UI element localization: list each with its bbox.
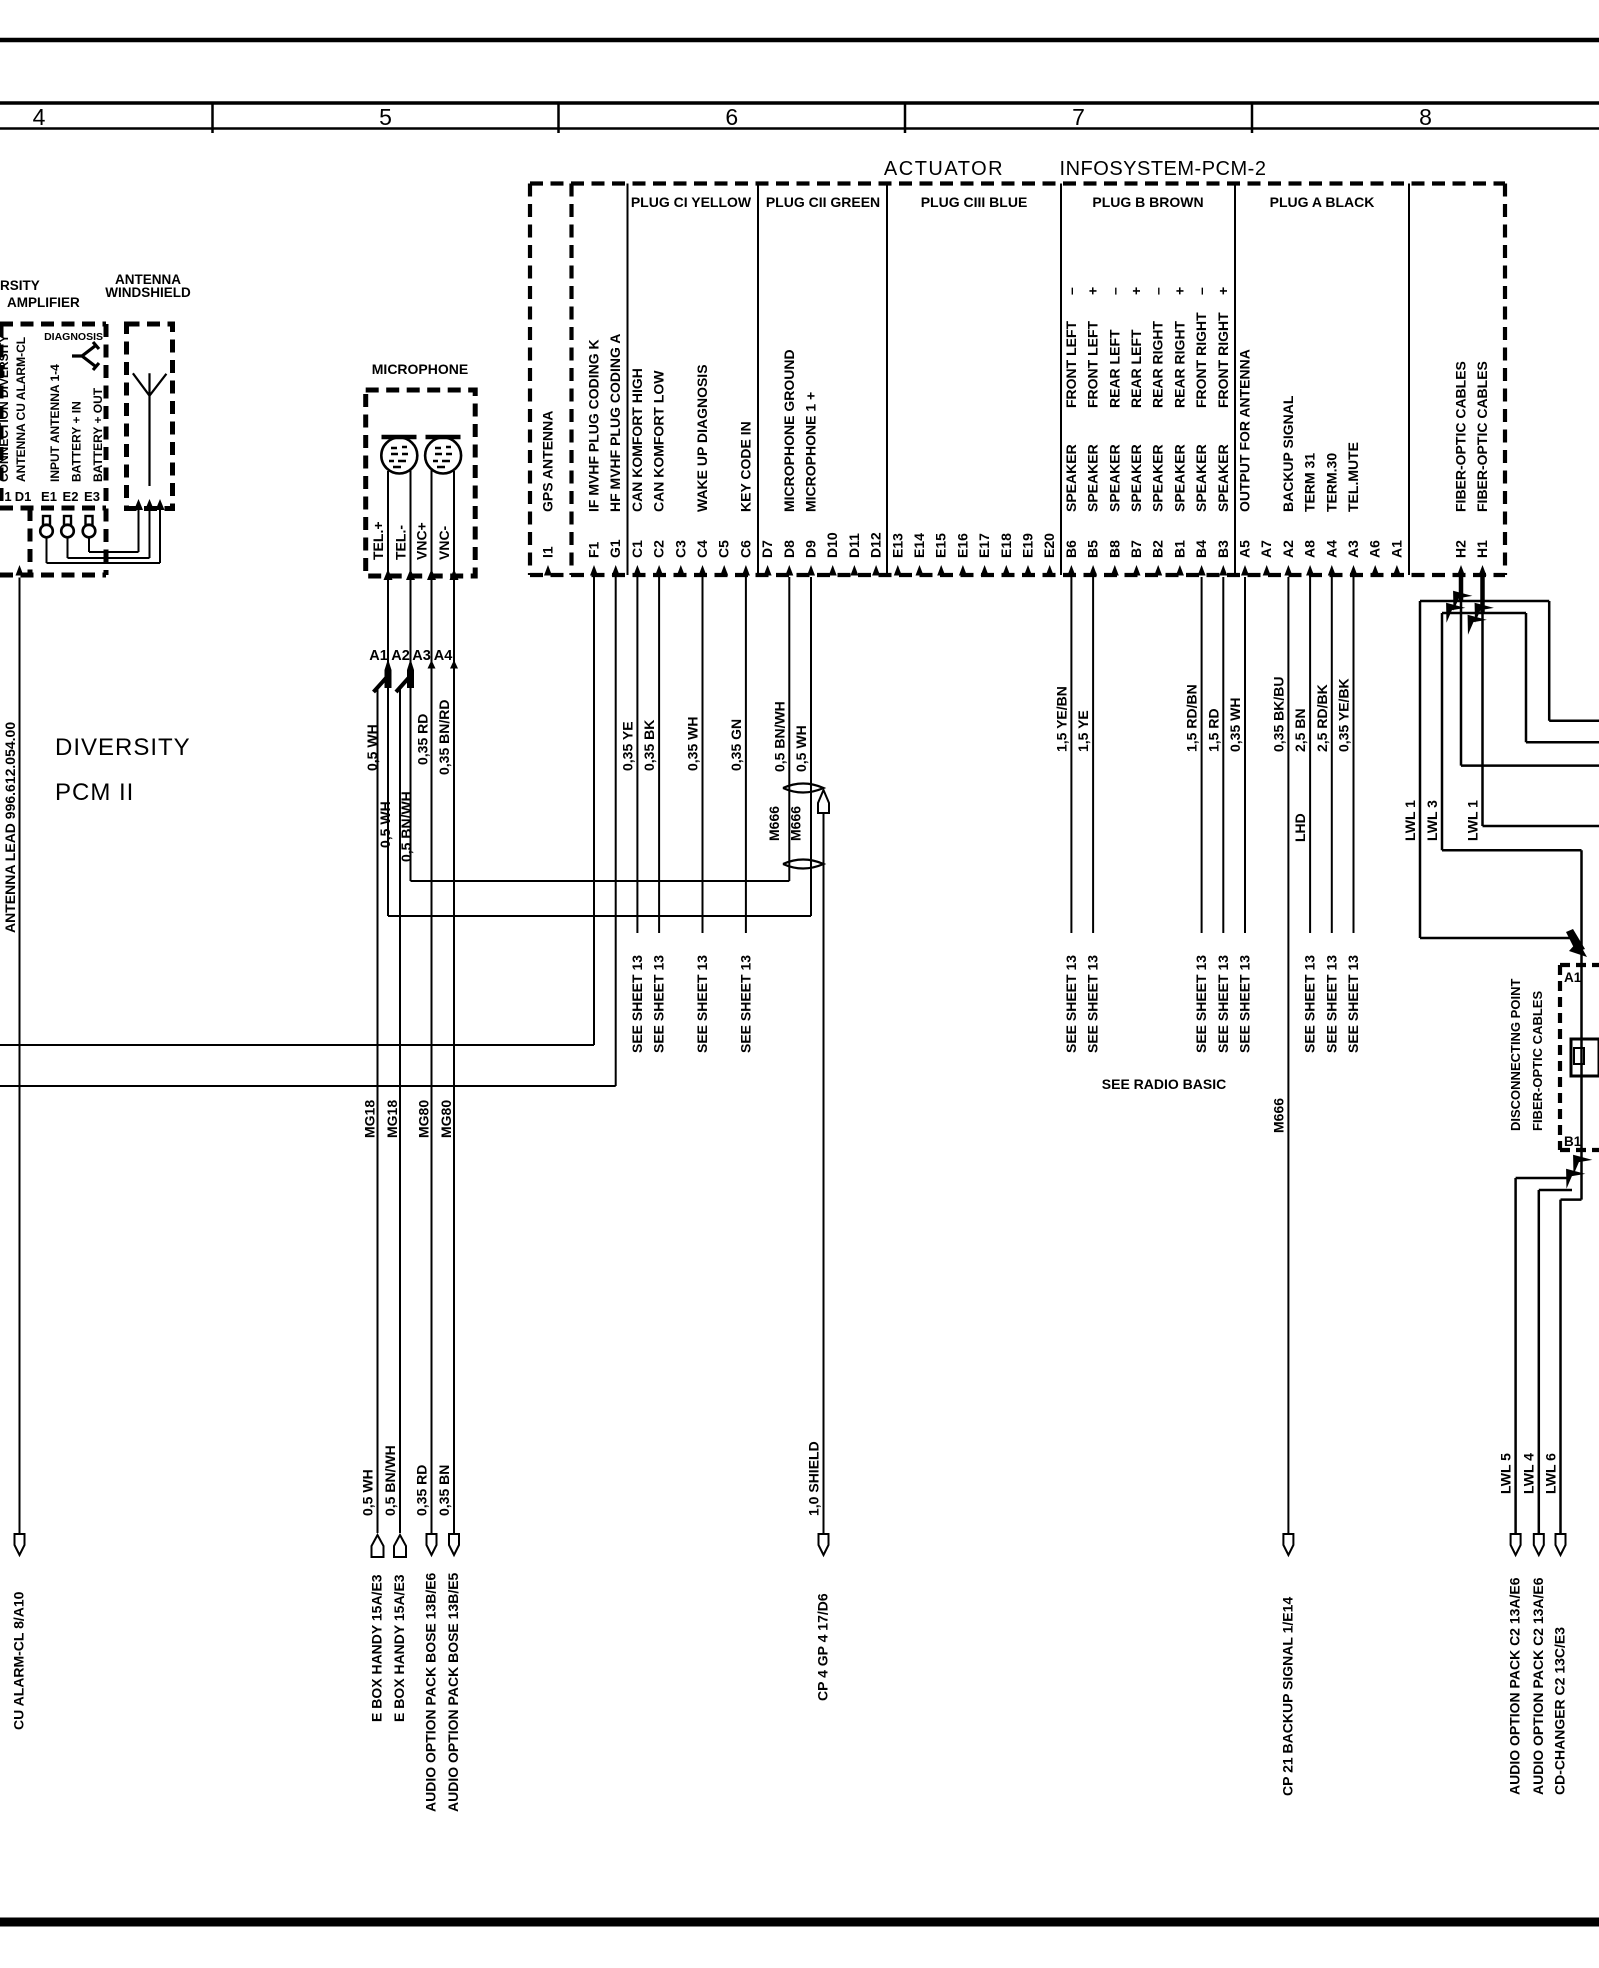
pin A7 <box>1263 565 1271 576</box>
svg-text:1,5 YE/BN: 1,5 YE/BN <box>1053 686 1069 752</box>
wire A2 backup signal <box>1287 577 1289 1533</box>
wire C4 <box>702 577 704 933</box>
svg-text:1,5 YE: 1,5 YE <box>1075 710 1091 752</box>
fiber chevrons H1 <box>1465 595 1494 622</box>
fiber LWL 6 <box>1561 1198 1582 1201</box>
section divider A <box>1234 184 1236 576</box>
svg-text:AUDIO OPTION PACK C2 13A/E6: AUDIO OPTION PACK C2 13A/E6 <box>1530 1577 1546 1795</box>
shield lens M666 lower <box>783 860 824 869</box>
svg-text:2,5 RD/BK: 2,5 RD/BK <box>1314 684 1330 752</box>
svg-text:G1: G1 <box>607 539 623 558</box>
svg-text:0,5 WH: 0,5 WH <box>360 1469 376 1516</box>
svg-text:C1: C1 <box>629 540 645 558</box>
wire B6 <box>1070 577 1072 933</box>
svg-text:ANTENNA LEAD 996.612.054.00: ANTENNA LEAD 996.612.054.00 <box>2 722 18 933</box>
svg-text:0,5 BN/WH: 0,5 BN/WH <box>771 701 787 772</box>
svg-text:CAN KOMFORT LOW: CAN KOMFORT LOW <box>651 370 667 512</box>
pin B2 <box>1154 565 1162 576</box>
wire D8 microphone ground <box>788 577 790 881</box>
svg-text:C2: C2 <box>651 540 667 558</box>
svg-text:AMPLIFIER: AMPLIFIER <box>7 295 80 310</box>
connector E2 <box>64 516 71 525</box>
svg-text:GPS ANTENNA: GPS ANTENNA <box>540 411 556 512</box>
svg-text:LWL 6: LWL 6 <box>1543 1453 1559 1494</box>
svg-text:SEE SHEET 13: SEE SHEET 13 <box>1323 955 1339 1053</box>
ruler bar <box>0 101 1599 105</box>
svg-text:D1: D1 <box>15 489 32 504</box>
wire B4 <box>1201 577 1203 933</box>
svg-text:1,5 RD: 1,5 RD <box>1205 708 1221 752</box>
svg-text:+: + <box>1128 287 1144 295</box>
wire TEL.- <box>410 470 412 881</box>
svg-text:PLUG CIII BLUE: PLUG CIII BLUE <box>921 194 1028 210</box>
actuator box outline <box>530 181 1505 185</box>
pin A2 <box>1284 565 1292 576</box>
svg-text:REAR RIGHT: REAR RIGHT <box>1171 320 1187 408</box>
fiber LWL 1 left <box>1420 600 1461 603</box>
section divider E <box>886 184 888 576</box>
svg-text:E18: E18 <box>998 533 1014 558</box>
svg-text:SEE SHEET 13: SEE SHEET 13 <box>1063 955 1079 1053</box>
microphone box bottom pin arrows <box>384 569 393 580</box>
pin E17 <box>981 565 989 576</box>
wire F1 coding <box>593 577 595 1045</box>
svg-text:CONNECTION DIVERSITY: CONNECTION DIVERSITY <box>0 335 11 482</box>
svg-text:ANTENNA CU ALARM-CL: ANTENNA CU ALARM-CL <box>14 337 28 482</box>
pin F1 <box>590 565 598 576</box>
svg-text:E3: E3 <box>84 489 100 504</box>
svg-text:+: + <box>1171 287 1187 295</box>
svg-text:A3: A3 <box>1345 540 1361 558</box>
svg-text:LWL 4: LWL 4 <box>1521 1453 1537 1494</box>
svg-text:LWL 1: LWL 1 <box>1402 800 1418 841</box>
pin B1 <box>1176 565 1184 576</box>
svg-text:FRONT RIGHT: FRONT RIGHT <box>1193 312 1209 408</box>
antenna symbol <box>133 373 167 486</box>
svg-text:BATTERY + OUT: BATTERY + OUT <box>91 387 105 482</box>
svg-text:A5: A5 <box>1237 540 1253 558</box>
wire C6 <box>745 577 747 933</box>
svg-text:MICROPHONE GROUND: MICROPHONE GROUND <box>781 349 797 512</box>
svg-text:BACKUP SIGNAL: BACKUP SIGNAL <box>1280 395 1296 512</box>
svg-text:0,35 GN: 0,35 GN <box>728 719 744 771</box>
svg-text:M666: M666 <box>788 806 804 841</box>
pin D9 <box>807 565 815 576</box>
pin D12 <box>872 565 880 576</box>
pin B8 <box>1111 565 1119 576</box>
arrow LWL 6 <box>1556 1534 1566 1555</box>
svg-text:PLUG CI YELLOW: PLUG CI YELLOW <box>631 194 752 210</box>
fiber wire H2 down <box>1460 600 1463 766</box>
pin B5 <box>1089 565 1097 576</box>
pin C6 <box>742 565 750 576</box>
fiber chevrons H2 <box>1444 583 1473 610</box>
svg-text:WAKE UP DIAGNOSIS: WAKE UP DIAGNOSIS <box>694 364 710 512</box>
svg-text:E2: E2 <box>63 489 79 504</box>
antenna windshield box <box>127 324 173 509</box>
svg-text:FRONT LEFT: FRONT LEFT <box>1063 320 1079 408</box>
fiber wire H1 down <box>1481 612 1484 826</box>
pin B3 <box>1219 565 1227 576</box>
svg-text:0,5 WH: 0,5 WH <box>377 801 393 848</box>
svg-text:E13: E13 <box>889 533 905 558</box>
wire D9 microphone 1+ <box>810 577 812 916</box>
svg-text:CU ALARM-CL 8/A10: CU ALARM-CL 8/A10 <box>11 1591 27 1730</box>
pin E16 <box>959 565 967 576</box>
svg-text:AUDIO OPTION PACK BOSE 13B/E: AUDIO OPTION PACK BOSE 13B/E5 <box>445 1572 461 1812</box>
pin E20 <box>1046 565 1054 576</box>
svg-text:MICROPHONE 1 +: MICROPHONE 1 + <box>803 392 819 512</box>
connector arrow A1 <box>385 659 392 688</box>
svg-text:SPEAKER: SPEAKER <box>1085 444 1101 512</box>
svg-text:HF MVHF PLUG CODING A: HF MVHF PLUG CODING A <box>607 334 623 512</box>
svg-text:0,35 RD: 0,35 RD <box>415 714 431 765</box>
svg-text:INPUT ANTENNA 1-4: INPUT ANTENNA 1-4 <box>48 364 62 482</box>
pin A5 <box>1241 565 1249 576</box>
svg-text:LWL 1: LWL 1 <box>1465 800 1481 841</box>
pin H2 <box>1457 565 1465 576</box>
svg-text:–: – <box>1193 287 1209 295</box>
wire CU ALARM-CL <box>16 565 24 576</box>
svg-text:1,5 RD/BN: 1,5 RD/BN <box>1184 684 1200 752</box>
svg-text:FIBER-OPTIC CABLES: FIBER-OPTIC CABLES <box>1474 361 1490 512</box>
svg-text:B1: B1 <box>1564 1134 1582 1149</box>
section divider H <box>1408 184 1410 576</box>
svg-text:A2: A2 <box>391 648 410 664</box>
svg-text:A1: A1 <box>1388 540 1404 558</box>
svg-text:0,5 WH: 0,5 WH <box>364 724 380 771</box>
svg-text:0,35 YE/BK: 0,35 YE/BK <box>1336 678 1352 752</box>
svg-text:M666: M666 <box>766 806 782 841</box>
connector CU-ALARM amplifier box <box>0 322 106 327</box>
svg-text:FIBER-OPTIC CABLES: FIBER-OPTIC CABLES <box>1453 361 1469 512</box>
pin A1 <box>1393 565 1401 576</box>
svg-text:LWL 5: LWL 5 <box>1498 1453 1514 1494</box>
wire E BOX HANDY 2 <box>399 689 401 1533</box>
svg-text:VNC-: VNC- <box>436 525 452 560</box>
svg-text:FRONT RIGHT: FRONT RIGHT <box>1215 312 1231 408</box>
svg-text:B1: B1 <box>1171 540 1187 558</box>
fiber LWL 3 <box>1442 612 1483 615</box>
fiber chevrons B1 <box>1564 1147 1593 1174</box>
pin D11 <box>850 565 858 576</box>
svg-text:B2: B2 <box>1150 540 1166 558</box>
svg-text:ACTUATOR: ACTUATOR <box>884 158 1004 180</box>
svg-text:PCM II: PCM II <box>55 779 134 806</box>
svg-text:0,5 BN/WH: 0,5 BN/WH <box>382 1445 398 1516</box>
wire B5 <box>1092 577 1094 933</box>
svg-text:LHD: LHD <box>1292 813 1308 842</box>
svg-text:SEE SHEET 13: SEE SHEET 13 <box>1215 955 1231 1053</box>
svg-text:A8: A8 <box>1302 540 1318 558</box>
svg-text:KEY CODE IN: KEY CODE IN <box>737 421 753 512</box>
svg-text:5: 5 <box>379 104 392 130</box>
svg-text:RSITY: RSITY <box>0 278 40 293</box>
disconnect coupler box <box>1571 1039 1599 1076</box>
svg-text:0,35 YE: 0,35 YE <box>619 721 635 771</box>
connector arrow A2 <box>407 659 414 688</box>
pin E18 <box>1002 565 1010 576</box>
svg-text:B3: B3 <box>1215 540 1231 558</box>
shield drain arrow <box>818 790 829 813</box>
pin D7 <box>764 565 772 576</box>
svg-text:8: 8 <box>1419 104 1432 130</box>
svg-text:MICROPHONE: MICROPHONE <box>372 361 468 377</box>
svg-text:7: 7 <box>1072 104 1085 130</box>
svg-text:SPEAKER: SPEAKER <box>1215 444 1231 512</box>
arrow E BOX HANDY 2 <box>394 1535 406 1557</box>
svg-text:BATTERY + IN: BATTERY + IN <box>70 401 84 482</box>
svg-text:CP 4 GP 4 17/D6: CP 4 GP 4 17/D6 <box>815 1593 831 1701</box>
fiber trunk to disconnecting point <box>1580 850 1583 1199</box>
svg-text:A4: A4 <box>434 648 453 664</box>
svg-text:C5: C5 <box>716 540 732 558</box>
svg-text:0,35 BN: 0,35 BN <box>436 1465 452 1516</box>
pin E15 <box>937 565 945 576</box>
wire A5 <box>1244 577 1246 933</box>
microphone capsule 2 <box>426 435 461 440</box>
svg-text:E20: E20 <box>1041 533 1057 558</box>
svg-text:C3: C3 <box>672 540 688 558</box>
fiber branch right upper <box>1461 600 1549 603</box>
svg-text:SPEAKER: SPEAKER <box>1193 444 1209 512</box>
svg-text:SPEAKER: SPEAKER <box>1063 444 1079 512</box>
svg-text:E16: E16 <box>954 533 970 558</box>
arrow shield CP4 <box>819 1534 829 1555</box>
top border line <box>0 38 1599 43</box>
svg-text:1,0 SHIELD: 1,0 SHIELD <box>806 1441 822 1516</box>
svg-text:+: + <box>1085 287 1101 295</box>
svg-text:SPEAKER: SPEAKER <box>1171 444 1187 512</box>
svg-text:SPEAKER: SPEAKER <box>1106 444 1122 512</box>
svg-text:PLUG B BROWN: PLUG B BROWN <box>1092 194 1203 210</box>
svg-text:SEE SHEET 13: SEE SHEET 13 <box>1302 955 1318 1053</box>
arrow BOSE 2 <box>449 1534 459 1555</box>
svg-text:SEE SHEET 13: SEE SHEET 13 <box>1085 955 1101 1053</box>
svg-text:SEE SHEET 13: SEE SHEET 13 <box>1345 955 1361 1053</box>
pin D10 <box>829 565 837 576</box>
svg-text:CAN KOMFORT HIGH: CAN KOMFORT HIGH <box>629 368 645 512</box>
section divider B <box>1060 184 1062 576</box>
svg-text:F1: F1 <box>586 541 602 558</box>
svg-text:D9: D9 <box>803 540 819 558</box>
pin A3 <box>1350 565 1358 576</box>
svg-text:D11: D11 <box>846 533 862 558</box>
wire A3 <box>1353 577 1355 933</box>
svg-text:MG18: MG18 <box>362 1100 378 1138</box>
svg-text:SPEAKER: SPEAKER <box>1128 444 1144 512</box>
svg-text:SEE RADIO BASIC: SEE RADIO BASIC <box>1102 1076 1226 1092</box>
svg-text:–: – <box>1063 287 1079 295</box>
svg-text:B7: B7 <box>1128 540 1144 558</box>
svg-text:E14: E14 <box>911 533 927 558</box>
svg-text:2,5 BN: 2,5 BN <box>1292 708 1308 752</box>
svg-text:4: 4 <box>33 104 46 130</box>
wire C1 <box>636 577 638 933</box>
wire E BOX HANDY 1 <box>377 689 379 1533</box>
pin C3 <box>677 565 685 576</box>
svg-text:A4: A4 <box>1323 540 1339 558</box>
svg-text:A3: A3 <box>412 648 431 664</box>
connector E1 <box>43 516 50 525</box>
svg-text:H1: H1 <box>1474 540 1490 558</box>
pin B4 <box>1198 565 1206 576</box>
svg-text:SEE SHEET 13: SEE SHEET 13 <box>1193 955 1209 1053</box>
svg-text:INFOSYSTEM-PCM-2: INFOSYSTEM-PCM-2 <box>1060 158 1267 180</box>
pin C4 <box>699 565 707 576</box>
wire G1 coding <box>615 577 617 1086</box>
pin A6 <box>1371 565 1379 576</box>
svg-text:PLUG CII GREEN: PLUG CII GREEN <box>766 194 880 210</box>
svg-text:TERM 31: TERM 31 <box>1302 453 1318 512</box>
svg-text:C6: C6 <box>737 540 753 558</box>
svg-text:D10: D10 <box>824 532 840 558</box>
svg-text:DISCONNECTING POINT: DISCONNECTING POINT <box>1508 979 1523 1131</box>
svg-text:TEL.-: TEL.- <box>393 525 409 560</box>
fiber LWL 5 <box>1516 1177 1570 1180</box>
arrow BOSE 1 <box>427 1534 437 1555</box>
svg-text:0,35 RD: 0,35 RD <box>414 1465 430 1516</box>
antenna box pin stubs <box>134 499 143 510</box>
svg-text:–: – <box>1150 287 1166 295</box>
svg-text:A6: A6 <box>1367 540 1383 558</box>
svg-text:FIBER-OPTIC CABLES: FIBER-OPTIC CABLES <box>1530 991 1545 1131</box>
svg-text:H2: H2 <box>1453 540 1469 558</box>
svg-text:E BOX HANDY 15A/E3: E BOX HANDY 15A/E3 <box>391 1574 407 1722</box>
svg-text:E19: E19 <box>1020 533 1036 558</box>
svg-text:A1: A1 <box>369 648 388 664</box>
svg-text:DIVERSITY: DIVERSITY <box>55 734 191 761</box>
svg-text:M666: M666 <box>1270 1098 1286 1133</box>
arrow E BOX HANDY 1 <box>372 1535 384 1557</box>
fiber LWL 4 <box>1539 1189 1572 1192</box>
connector area dashed box <box>28 508 33 575</box>
pin A4 <box>1328 565 1336 576</box>
shield lens M666 upper <box>783 784 824 793</box>
pin E19 <box>1024 565 1032 576</box>
svg-text:D8: D8 <box>781 540 797 558</box>
pin C2 <box>655 565 663 576</box>
wire VNC- <box>453 471 455 1533</box>
svg-text:PLUG A BLACK: PLUG A BLACK <box>1270 194 1375 210</box>
microphone box <box>366 390 476 576</box>
svg-text:B5: B5 <box>1085 540 1101 558</box>
svg-text:6: 6 <box>725 104 738 130</box>
fiber branch right lower <box>1483 612 1527 615</box>
pin G1 <box>612 565 620 576</box>
svg-text:FRONT LEFT: FRONT LEFT <box>1085 320 1101 408</box>
fiber H1 stub <box>1480 577 1485 612</box>
wire B3 <box>1222 577 1224 933</box>
svg-text:D12: D12 <box>868 532 884 558</box>
svg-text:CD-CHANGER C2 13C/E3: CD-CHANGER C2 13C/E3 <box>1552 1627 1568 1795</box>
svg-text:MG80: MG80 <box>416 1100 432 1138</box>
arrow CP 21 <box>1283 1534 1293 1555</box>
svg-text:0,5 WH: 0,5 WH <box>793 725 809 772</box>
bottom border line <box>0 1918 1599 1927</box>
pin C5 <box>720 565 728 576</box>
svg-text:OUTPUT FOR ANTENNA: OUTPUT FOR ANTENNA <box>1237 349 1253 512</box>
svg-text:WINDSHIELD: WINDSHIELD <box>105 285 191 300</box>
svg-text:C4: C4 <box>694 540 710 558</box>
pin B6 <box>1067 565 1075 576</box>
pin E14 <box>916 565 924 576</box>
svg-text:TEL.+: TEL.+ <box>370 521 386 560</box>
arrow LWL 5 <box>1511 1534 1521 1555</box>
svg-text:REAR RIGHT: REAR RIGHT <box>1150 320 1166 408</box>
wire E3 to antenna <box>88 537 90 552</box>
svg-text:REAR LEFT: REAR LEFT <box>1106 329 1122 408</box>
svg-text:SEE SHEET 13: SEE SHEET 13 <box>694 955 710 1053</box>
wire A8 <box>1309 577 1311 933</box>
connector E3 <box>86 516 93 525</box>
svg-text:0,5 BN/WH: 0,5 BN/WH <box>398 791 414 862</box>
arrow CU ALARM-CL <box>15 1534 25 1555</box>
diagnosis fork symbol <box>72 342 99 370</box>
svg-text:D7: D7 <box>759 540 775 558</box>
svg-text:E15: E15 <box>933 533 949 558</box>
section divider D <box>757 184 759 576</box>
wire TEL.+ <box>387 471 389 916</box>
svg-text:CP 21 BACKUP SIGNAL 1/E14: CP 21 BACKUP SIGNAL 1/E14 <box>1279 1597 1295 1796</box>
wire C2 <box>658 577 660 933</box>
svg-text:SEE SHEET 13: SEE SHEET 13 <box>1237 955 1253 1053</box>
wire VNC+ <box>431 470 433 1533</box>
wire A4 <box>1331 577 1333 933</box>
svg-text:B8: B8 <box>1106 540 1122 558</box>
svg-text:E BOX HANDY 15A/E3: E BOX HANDY 15A/E3 <box>369 1574 385 1722</box>
pin C1 <box>633 565 641 576</box>
svg-text:0,35 BN/RD: 0,35 BN/RD <box>436 700 452 775</box>
svg-text:E1: E1 <box>41 489 57 504</box>
connector arrow A3 <box>428 660 436 669</box>
svg-text:SEE SHEET 13: SEE SHEET 13 <box>737 955 753 1053</box>
svg-text:A7: A7 <box>1258 540 1274 558</box>
svg-text:B4: B4 <box>1193 540 1209 558</box>
svg-text:E17: E17 <box>976 533 992 558</box>
svg-text:I1: I1 <box>540 546 556 558</box>
GPS antenna column divider <box>569 184 573 576</box>
arrow LWL 4 <box>1534 1534 1544 1555</box>
svg-text:AUDIO OPTION PACK BOSE 13B/E: AUDIO OPTION PACK BOSE 13B/E6 <box>423 1572 439 1812</box>
svg-text:IF MVHF PLUG CODING K: IF MVHF PLUG CODING K <box>586 339 602 512</box>
svg-text:MG80: MG80 <box>438 1100 454 1138</box>
pin H1 <box>1479 565 1487 576</box>
svg-text:+: + <box>1215 287 1231 295</box>
svg-text:1: 1 <box>4 489 11 504</box>
wire E2 to antenna <box>67 537 69 558</box>
svg-text:TEL.MUTE: TEL.MUTE <box>1345 442 1361 512</box>
svg-text:–: – <box>1106 287 1122 295</box>
fiber H2 stub <box>1459 577 1464 600</box>
svg-text:A2: A2 <box>1280 540 1296 558</box>
pin A8 <box>1306 565 1314 576</box>
pin B7 <box>1133 565 1141 576</box>
section divider C <box>627 184 629 576</box>
svg-text:0,35 WH: 0,35 WH <box>685 717 701 771</box>
svg-text:LWL 3: LWL 3 <box>1424 800 1440 841</box>
svg-text:A1: A1 <box>1564 970 1582 985</box>
pin E13 <box>894 565 902 576</box>
wire shield drain <box>823 813 825 1533</box>
pin I1 <box>544 565 552 576</box>
disconnecting point dashed box <box>1560 963 1599 967</box>
svg-text:B6: B6 <box>1063 540 1079 558</box>
svg-text:MG18: MG18 <box>384 1100 400 1138</box>
svg-text:SPEAKER: SPEAKER <box>1150 444 1166 512</box>
svg-text:0,35 WH: 0,35 WH <box>1227 698 1243 752</box>
svg-text:VNC+: VNC+ <box>414 522 430 560</box>
